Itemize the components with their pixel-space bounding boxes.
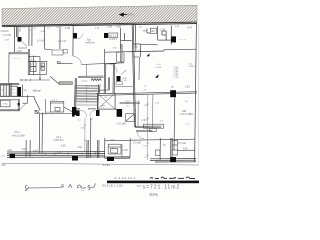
svg-text:33.50: 33.50: [102, 163, 110, 167]
svg-text:0.9: 0.9: [185, 101, 189, 103]
column C16: [170, 157, 176, 162]
vertical dim right of parking: [121, 144, 123, 157]
svg-text:6-3-12-12-1: 6-3-12-12-1: [115, 176, 137, 180]
column C5 tall: [18, 87, 21, 97]
column C15: [107, 157, 114, 161]
closet label: [31, 59, 35, 61]
svg-text:1.20: 1.20: [155, 102, 160, 104]
wall x139: [134, 57, 140, 80]
svg-text:wlc: wlc: [143, 30, 147, 32]
hallway label: [24, 90, 28, 92]
south dim labels: [22, 146, 189, 155]
svg-text:1.40: 1.40: [33, 150, 38, 152]
living room label: [14, 130, 20, 134]
door arc entry hall: [73, 56, 81, 64]
alley text metri: [25, 185, 64, 191]
hall wall pair center: [104, 49, 114, 93]
street level arrow marker: [119, 12, 128, 16]
chamfer wall: [34, 98, 40, 110]
svg-text:2.84: 2.84: [183, 149, 188, 151]
hall lower wall double: [81, 63, 124, 65]
svg-text:5.40: 5.40: [57, 25, 63, 29]
west lower double wall: [39, 113, 42, 154]
svg-text:o.s: o.s: [12, 92, 16, 94]
entry wall poche: [59, 82, 72, 85]
svg-text:s=721.11m2: s=721.11m2: [143, 184, 181, 190]
tiny text under stair wall: [81, 80, 88, 82]
dim arrow mid: [39, 75, 41, 80]
svg-text:1.40: 1.40: [57, 152, 62, 154]
svg-text:2.05: 2.05: [123, 80, 128, 82]
street hatched band: [0, 4, 245, 28]
lot boundary line bottom: [2, 163, 199, 165]
room box top mid: [52, 49, 67, 55]
corridor L bottom wall: [135, 126, 161, 128]
svg-text:c*U xl9i: c*U xl9i: [133, 143, 141, 145]
parking label: [111, 139, 117, 150]
parking box: [108, 144, 121, 154]
stair treads: [75, 85, 98, 101]
svg-text:1.1: 1.1: [186, 123, 190, 125]
svg-text:1.2: 1.2: [78, 119, 82, 121]
svg-text:1.2: 1.2: [104, 97, 108, 99]
svg-text:cs: cs: [41, 64, 43, 66]
dim labels above right wall: [171, 86, 190, 88]
dim chain labels: [143, 105, 148, 159]
bedroom label mid-left: [13, 57, 21, 60]
terrace label: [151, 31, 155, 33]
street level text: [128, 13, 134, 17]
svg-text:c*U xl9i: c*U xl9i: [117, 122, 127, 126]
dimension chain vertical right of core: [146, 95, 149, 160]
svg-text:3.00: 3.00: [116, 24, 122, 28]
svg-text:1.0: 1.0: [144, 85, 148, 87]
svg-text:c*U xl9i: c*U xl9i: [3, 34, 12, 37]
kitchen area label: [33, 89, 42, 92]
column C13: [10, 154, 15, 159]
svg-text:+0.0: +0.0: [0, 155, 5, 157]
lightwell labels: [109, 35, 117, 41]
svg-text:2.4x1.2: 2.4x1.2: [109, 39, 117, 41]
svg-text:a.s: a.s: [31, 59, 35, 61]
svg-text:---- ----: ---- ----: [13, 57, 21, 60]
svg-text:2.0: 2.0: [139, 27, 143, 29]
right unit terrace box: [150, 28, 156, 33]
svg-text:uo 2.4: uo 2.4: [51, 100, 57, 102]
bedroom dim line left mid: [9, 52, 29, 53]
mid-top unit walls: [60, 25, 73, 56]
door leaf left unit: [22, 42, 27, 47]
right room labels bottom: [133, 143, 186, 147]
percent text: [150, 192, 159, 197]
svg-text:1.50: 1.50: [107, 25, 113, 29]
wall ticks corridor: [134, 105, 136, 115]
labels sw row: [45, 100, 58, 114]
dim label 2.83 left: [5, 40, 10, 42]
svg-text:2.60: 2.60: [123, 150, 128, 152]
column C9: [96, 110, 100, 116]
tick text left: [41, 31, 46, 33]
bottom room top lines: [105, 139, 195, 150]
svg-text:1.10: 1.10: [95, 152, 100, 154]
entry door leaf diagonal: [50, 77, 59, 85]
svg-text:1.35: 1.35: [185, 86, 190, 88]
column C6: [117, 76, 121, 81]
room label salon: [86, 39, 95, 45]
svg-text:cls: cls: [12, 89, 16, 91]
area text right mid: [180, 109, 194, 116]
legend small text left: [155, 64, 161, 69]
svg-text:2.1: 2.1: [101, 107, 105, 109]
box under column C6: [116, 82, 123, 85]
dim ticks south: [28, 153, 95, 155]
section arrow mid: [146, 53, 149, 56]
kitchen lower-left walls: [0, 83, 22, 96]
svg-text:ca: ca: [163, 145, 166, 147]
svg-text:c*U xl9i: c*U xl9i: [37, 39, 46, 42]
left storage boxes: [0, 95, 34, 111]
small text left of core: [101, 105, 106, 109]
small black node: [18, 103, 20, 105]
svg-text:i9jbl: i9jbl: [145, 126, 149, 128]
svg-text:4.30: 4.30: [17, 50, 22, 53]
svg-text:c*Uxl: c*Uxl: [2, 104, 8, 106]
legend list right: [173, 67, 180, 79]
svg-text:1.2x2.2: 1.2x2.2: [45, 112, 52, 114]
corridor text small: [126, 103, 129, 107]
dim label 4.30: [17, 50, 22, 53]
pm text: [137, 185, 141, 188]
dim text hall top: [112, 48, 141, 52]
elevator X diagonals: [97, 93, 115, 109]
column C11 on wall: [170, 90, 176, 97]
wall pair x121: [121, 44, 122, 62]
hall label: [135, 46, 139, 49]
svg-text:=101.4: =101.4: [189, 66, 197, 68]
wall stub y48: [18, 47, 27, 49]
dining room label: [56, 135, 62, 139]
svg-text:wl9: wl9: [151, 31, 155, 33]
svg-text:2.83: 2.83: [5, 40, 10, 42]
svg-text:us9i: us9i: [7, 150, 12, 152]
svg-text:---- ----: ---- ----: [179, 38, 187, 41]
svg-text:2.2: 2.2: [160, 121, 164, 123]
label right of lightwell: [143, 30, 147, 32]
svg-text:1.2x2.4: 1.2x2.4: [81, 80, 88, 82]
under arc texts: [78, 119, 94, 122]
door arc stair hall right: [90, 110, 96, 116]
svg-text:0.60: 0.60: [175, 26, 180, 28]
lobby tiny labels: [104, 78, 147, 99]
garage label: [77, 147, 83, 149]
svg-text:-0.04: -0.04: [128, 13, 134, 17]
svg-text:=1.49: =1.49: [155, 67, 161, 69]
section arrow right: [155, 74, 159, 78]
wall stub y49: [45, 48, 52, 50]
right unit walls: [141, 26, 172, 45]
corridor wall above stairs double: [78, 76, 104, 78]
corridor label: [142, 119, 146, 122]
svg-text:xls 2.u: xls 2.u: [110, 35, 117, 37]
wc labels column: [30, 57, 44, 70]
south wall window lines: [7, 152, 196, 162]
svg-text:s=87.5m: s=87.5m: [54, 138, 64, 142]
svg-text:ii9jbival: ii9jbival: [33, 89, 42, 92]
stair center rail: [85, 86, 87, 104]
svg-text:4.70: 4.70: [187, 25, 193, 29]
door leaf hall: [121, 70, 126, 75]
door wall below corridor: [136, 131, 152, 132]
elevator shaft: [97, 93, 115, 109]
svg-text:1.50: 1.50: [65, 26, 71, 30]
bottom rooms verticals: [26, 118, 172, 163]
level text left: [0, 155, 5, 157]
door leaf storage: [19, 104, 26, 111]
dim vertical below stairs: [84, 118, 87, 153]
column C2: [73, 33, 77, 39]
lobby wall pair: [98, 77, 115, 95]
title bar thick: [107, 181, 199, 184]
lightwell column C3: [104, 33, 108, 38]
wall y63 with notches: [57, 62, 73, 64]
svg-text:ca: ca: [171, 87, 174, 89]
title persian: [150, 177, 195, 178]
duct line x138: [137, 100, 139, 126]
column C8: [76, 110, 79, 116]
door arc hall: [110, 65, 117, 73]
bedroom label right: [179, 38, 187, 41]
svg-text:Jla: Jla: [135, 46, 139, 49]
entrance label bottom left: [7, 150, 12, 152]
wc box right bottom: [156, 140, 178, 155]
overall dim 33.50: [102, 163, 110, 167]
svg-text:c*U xl9i: c*U xl9i: [178, 143, 186, 145]
column C14: [72, 156, 78, 161]
svg-text:0.60: 0.60: [95, 27, 100, 29]
svg-text:wl9: wl9: [182, 109, 187, 113]
north dimension labels row: [20, 24, 193, 31]
column C12: [72, 107, 76, 115]
speckle labels top mid: [47, 26, 180, 30]
right margin dimension line: [198, 24, 200, 163]
long mid wall to right: [105, 49, 197, 52]
svg-text:au: au: [41, 68, 43, 70]
note squiggle under wall: [91, 79, 101, 81]
wc stack walls: [28, 49, 47, 75]
vertical wall x174: [173, 97, 176, 151]
svg-text:u.w: u.w: [31, 69, 35, 71]
door arc lower corridor: [137, 132, 144, 139]
svg-text:0.9: 0.9: [28, 30, 32, 32]
column C4: [171, 36, 176, 42]
svg-text:s=90.3m: s=90.3m: [86, 41, 95, 44]
speckle labels right column: [155, 101, 190, 126]
left unit walls: [14, 26, 44, 53]
alley text 8: [68, 184, 72, 187]
scale text: [102, 183, 123, 187]
svg-text:0.60: 0.60: [22, 149, 27, 151]
column C7: [72, 110, 75, 117]
text above corridor lines: [126, 100, 132, 102]
column C1: [18, 37, 22, 42]
left wall lower: [8, 52, 10, 83]
room label office: [58, 40, 67, 43]
stairwell left wall: [74, 78, 100, 110]
elevator bottom wall extension: [115, 108, 117, 110]
svg-text:+ 1.20: + 1.20: [173, 77, 180, 79]
svg-text:3.75: 3.75: [144, 120, 149, 122]
svg-text:c*Lo: c*Lo: [14, 130, 20, 134]
svg-text:2.60: 2.60: [112, 48, 117, 50]
north dimension line left: [1, 30, 9, 32]
svg-text:sis: sis: [24, 90, 28, 92]
utility label: [145, 126, 149, 128]
corridor lines right: [120, 102, 140, 104]
hall walls center: [121, 24, 151, 127]
svg-text:e.g: e.g: [137, 185, 141, 188]
svg-text:u SjL: u SjL: [77, 147, 83, 149]
stair lower flight light: [75, 103, 98, 106]
svg-text:SCALE 1:100: SCALE 1:100: [102, 183, 123, 187]
stair hall bottom wall: [72, 108, 96, 110]
alley text koocheh: [77, 183, 95, 191]
svg-text:u iS: u iS: [157, 64, 161, 66]
svg-text:2.90: 2.90: [17, 31, 22, 33]
svg-text:ca: ca: [126, 105, 129, 107]
south-west boxes row: [35, 99, 75, 114]
stacked dim text above column: [17, 28, 37, 33]
title small code text: [115, 176, 137, 180]
duct box U: [117, 52, 124, 62]
vertical wall x152: [152, 95, 154, 129]
street band bottom wall double line: [2, 22, 197, 27]
wall y86: [115, 85, 133, 87]
svg-text:1.2: 1.2: [47, 28, 51, 30]
svg-text:1.2: 1.2: [144, 157, 148, 159]
dim label 3.20: [81, 128, 86, 130]
svg-text:4.25: 4.25: [61, 146, 66, 148]
area total text: [143, 184, 181, 190]
svg-text:s=111.08m: s=111.08m: [12, 133, 26, 137]
right edge wall: [195, 23, 197, 162]
utility boxes x150 y124: [144, 124, 164, 131]
svg-text:81%: 81%: [150, 192, 159, 197]
storage label: [2, 104, 8, 106]
area label top right: [189, 64, 197, 68]
kitchen labels: [1, 89, 15, 94]
svg-text:s=117.88m: s=117.88m: [180, 112, 194, 116]
svg-text:c9U xlc: c9U xlc: [58, 40, 67, 43]
ramp box: [126, 114, 135, 122]
door arc mid-top: [77, 34, 82, 39]
door arc stair hall left: [80, 110, 87, 117]
corridor wall right of elevator double: [115, 92, 197, 95]
svg-text:2.1: 2.1: [34, 28, 38, 30]
svg-text:pla: pla: [31, 64, 35, 66]
room label left a: [3, 34, 12, 37]
center room label: [117, 122, 127, 126]
svg-text:2.3: 2.3: [144, 89, 148, 91]
dim line hallway: [20, 79, 51, 81]
room label left c: [37, 39, 46, 42]
chamfer top stub: [33, 97, 35, 99]
lot label 0.50: [1, 164, 6, 167]
lightwell box: [109, 33, 118, 38]
column C10 big: [117, 109, 123, 117]
svg-text:0.50: 0.50: [1, 164, 6, 167]
vertical x86: [85, 64, 87, 76]
